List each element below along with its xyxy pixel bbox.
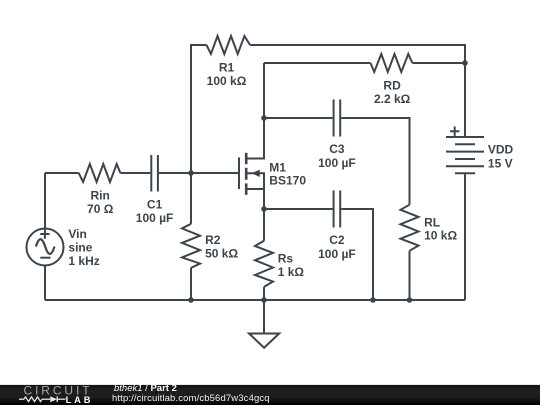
svg-text:VDD: VDD — [488, 143, 514, 157]
svg-text:100 µF: 100 µF — [318, 247, 356, 261]
svg-text:Rin: Rin — [91, 188, 110, 202]
svg-text:1 kHz: 1 kHz — [68, 254, 99, 268]
svg-text:R1: R1 — [219, 61, 235, 75]
svg-text:2.2 kΩ: 2.2 kΩ — [374, 92, 411, 106]
svg-text:100 kΩ: 100 kΩ — [207, 74, 247, 88]
svg-text:70 Ω: 70 Ω — [87, 202, 114, 216]
svg-text:C3: C3 — [329, 142, 345, 156]
svg-text:LAB: LAB — [66, 395, 94, 405]
svg-text:sine: sine — [68, 240, 92, 254]
svg-text:C1: C1 — [147, 198, 163, 212]
svg-text:M1: M1 — [269, 160, 286, 174]
svg-text:RD: RD — [383, 79, 401, 93]
svg-text:R2: R2 — [205, 233, 221, 247]
svg-text:Vin: Vin — [68, 227, 86, 241]
svg-text:Rs: Rs — [278, 251, 294, 265]
svg-text:100 µF: 100 µF — [136, 211, 174, 225]
svg-text:50 kΩ: 50 kΩ — [205, 247, 238, 261]
svg-text:C2: C2 — [329, 233, 345, 247]
svg-text:10 kΩ: 10 kΩ — [424, 228, 457, 242]
svg-text:http://circuitlab.com/cb56d7w3: http://circuitlab.com/cb56d7w3c4gcq — [112, 393, 270, 404]
svg-text:15 V: 15 V — [488, 157, 513, 171]
svg-text:BS170: BS170 — [269, 174, 306, 188]
svg-text:100 µF: 100 µF — [318, 156, 356, 170]
svg-text:1 kΩ: 1 kΩ — [278, 265, 305, 279]
